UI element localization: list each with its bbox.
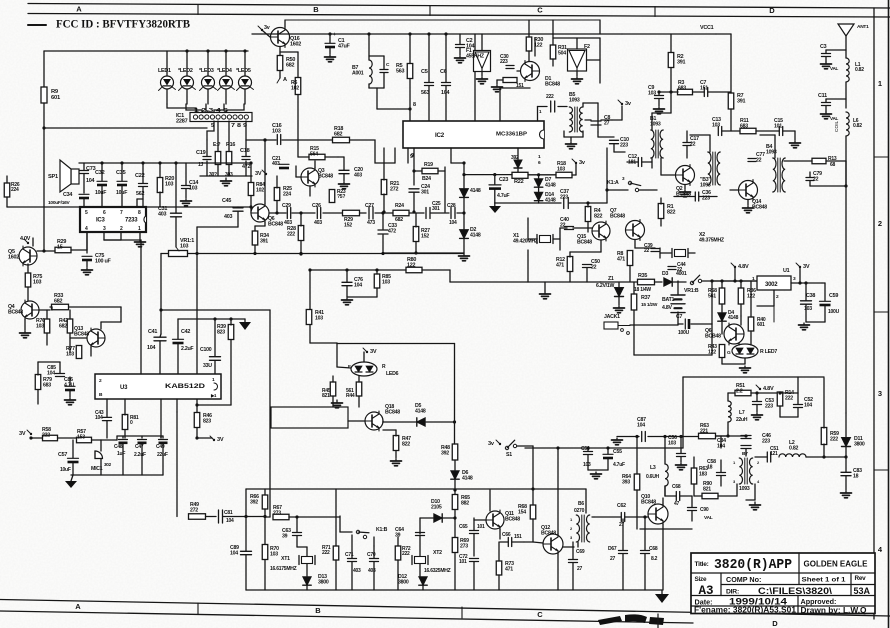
wire F2 right <box>599 38 601 83</box>
ground Q14 <box>747 200 749 205</box>
svg-text:151: 151 <box>700 85 708 91</box>
wire R43 gnd <box>721 358 723 364</box>
svg-text:103: 103 <box>557 166 565 172</box>
wire cap bottoms <box>122 444 124 475</box>
wire IC3 pin2-3 bottom <box>103 232 105 240</box>
svg-text:104: 104 <box>86 178 94 184</box>
svg-text:27: 27 <box>577 566 583 572</box>
wire LED1 to pin1 <box>167 104 196 113</box>
diode D10 <box>434 514 442 522</box>
svg-text:BC848: BC848 <box>641 499 656 505</box>
capacitor C22 <box>139 183 148 185</box>
wire LED3 anode <box>207 51 209 76</box>
wire C89 <box>245 517 247 552</box>
wire IC1 pin9 down <box>245 121 247 140</box>
svg-text:224: 224 <box>11 187 19 193</box>
capacitor C67 <box>619 550 628 552</box>
svg-text:F'ename: 3820(R)A53.S01: F'ename: 3820(R)A53.S01 <box>694 606 797 615</box>
wire LED4 anode <box>225 51 227 76</box>
svg-text:683: 683 <box>43 382 51 388</box>
resistor R71 <box>333 546 339 560</box>
wire C87 right <box>648 436 700 438</box>
svg-text:BC848: BC848 <box>8 309 23 315</box>
svg-text:C65: C65 <box>459 524 468 530</box>
svg-text:272: 272 <box>390 187 398 193</box>
svg-text:C69: C69 <box>576 549 585 555</box>
svg-text:G: G <box>727 350 731 356</box>
wire L2 right <box>806 456 846 458</box>
wire VCC top rail <box>252 33 622 35</box>
wire Q5 emitter <box>27 264 29 273</box>
svg-text:3800: 3800 <box>854 441 865 447</box>
svg-text:U1: U1 <box>783 268 790 274</box>
wire K1B <box>339 516 341 532</box>
resistor R18 <box>333 137 350 143</box>
wire Q11 base <box>474 519 486 521</box>
resistor R43 <box>719 345 725 358</box>
svg-text:BC848: BC848 <box>74 331 89 337</box>
bottom tick B/C <box>461 607 463 618</box>
capacitor C72 <box>470 558 479 560</box>
svg-text:563: 563 <box>396 69 404 75</box>
svg-text:B6: B6 <box>578 501 584 507</box>
resistor R70 <box>262 545 268 560</box>
svg-text:471: 471 <box>505 566 513 572</box>
diode D11 <box>842 438 851 447</box>
wire C31 to pot <box>175 217 177 247</box>
inductor L7 <box>728 401 731 422</box>
svg-text:A: A <box>76 5 82 14</box>
wire long mid rail <box>44 127 207 129</box>
wire C100 <box>214 319 216 356</box>
wire R5 <box>409 34 411 63</box>
resistor R34 <box>252 231 258 245</box>
wire R39 <box>230 319 232 325</box>
wire R80 left <box>310 269 406 271</box>
svg-text:C34: C34 <box>63 192 72 198</box>
diode D8 392 <box>514 160 522 168</box>
capacitor C70 <box>370 558 379 560</box>
resistor R14 <box>777 392 783 406</box>
resistor R5 <box>407 64 413 79</box>
3v tag B5 <box>621 103 623 105</box>
svg-text:*LED5: *LED5 <box>236 68 251 74</box>
wire LED2 to pin2 <box>186 104 202 113</box>
svg-text:18: 18 <box>707 464 713 470</box>
svg-text:222: 222 <box>287 231 295 237</box>
wire mod box shield <box>271 407 348 428</box>
wire Q13 base <box>70 337 87 339</box>
svg-text:39: 39 <box>282 533 288 539</box>
svg-text:4148: 4148 <box>470 188 481 194</box>
resistor R77 <box>76 346 82 359</box>
svg-text:22: 22 <box>644 248 650 254</box>
svg-text:D: D <box>769 6 775 15</box>
pot R22 <box>512 172 528 178</box>
wire IC2 pin9 stub <box>413 148 415 185</box>
svg-text:K1:A: K1:A <box>607 180 619 186</box>
node audio rail <box>100 161 103 164</box>
svg-text:LED1: LED1 <box>158 68 171 74</box>
svg-text:*LED4: *LED4 <box>217 68 232 74</box>
wire shield top <box>161 309 270 311</box>
capacitor C16 <box>276 135 278 145</box>
resistor R81 <box>122 415 128 430</box>
capacitor C52 <box>794 404 803 406</box>
capacitor C43 <box>103 416 112 418</box>
wire R36 <box>740 281 742 288</box>
svg-text:391: 391 <box>737 99 745 105</box>
wire 4.8 rail <box>712 280 786 282</box>
wire R47 <box>395 430 397 436</box>
wire R29 left <box>37 250 55 252</box>
wire D5 <box>383 421 416 423</box>
svg-text:R44: R44 <box>346 393 355 399</box>
resistor R9 <box>41 87 47 103</box>
wire C2 <box>459 34 461 44</box>
wire C53 <box>756 393 758 401</box>
svg-text:U3: U3 <box>120 385 128 391</box>
switch S1 <box>505 446 508 449</box>
capacitor C69 <box>569 559 578 561</box>
wire C34 down <box>83 199 85 207</box>
svg-text:COMP No:: COMP No: <box>726 575 761 584</box>
wire R49 feed <box>176 412 178 517</box>
capacitor C79 <box>806 177 814 179</box>
title block outer box <box>691 553 875 614</box>
svg-text:BC848: BC848 <box>545 81 560 87</box>
resistor R90 <box>702 493 718 499</box>
capacitor C222 <box>550 101 552 112</box>
capacitor C89 <box>241 550 252 552</box>
sheet frame right border outer <box>888 0 890 628</box>
transistor Q14 <box>739 180 758 201</box>
capacitor C68 <box>675 492 677 501</box>
wire C40 net <box>573 227 592 229</box>
wire R33 right <box>69 306 121 308</box>
resistor R26 <box>4 183 10 197</box>
wire C18 <box>245 140 247 156</box>
wire Q3 collector <box>314 161 316 168</box>
wire LED2 anode <box>186 51 188 76</box>
wire R67 right <box>289 516 340 518</box>
wire K1A right <box>639 189 657 191</box>
svg-text:C32: C32 <box>95 170 105 176</box>
wire C79 top <box>810 185 846 187</box>
electrolytic C42 <box>173 338 184 340</box>
svg-text:27: 27 <box>610 556 616 562</box>
wire audio net <box>38 361 60 363</box>
svg-text:1602: 1602 <box>290 42 301 48</box>
diode D6 <box>451 471 459 479</box>
wire q10 down <box>662 529 664 590</box>
svg-text:68: 68 <box>830 162 836 168</box>
LED LED1 <box>161 76 174 89</box>
wire D5 right <box>426 421 455 423</box>
svg-text:C3: C3 <box>820 44 827 50</box>
capacitor C37 <box>563 198 565 209</box>
transistor Q10 <box>648 503 668 525</box>
tank wires <box>368 34 370 60</box>
resistor R69 <box>452 538 458 553</box>
wire LED7 <box>738 343 740 345</box>
diode D13 <box>303 577 311 585</box>
wire R66 <box>264 489 266 495</box>
svg-text:3V: 3V <box>19 431 26 437</box>
diode D3 <box>664 278 672 286</box>
wire C67 <box>622 519 624 550</box>
capacitor C51 <box>766 452 768 462</box>
wire rail top q16 <box>285 19 600 21</box>
zener Z1 <box>615 288 624 297</box>
speaker SP1 <box>71 169 79 184</box>
dual LED7 <box>732 344 758 358</box>
jack JACK1 <box>604 322 618 329</box>
wire Q6b collector <box>740 316 742 325</box>
svg-text:IC3: IC3 <box>96 218 106 224</box>
wire C81 right <box>223 516 265 518</box>
capacitor C38 <box>801 300 812 302</box>
wire LED1 anode <box>166 51 168 76</box>
svg-text:103: 103 <box>668 440 676 446</box>
svg-text:403: 403 <box>272 161 280 167</box>
diode D5 <box>417 418 425 426</box>
wire B1 top <box>651 113 653 130</box>
svg-text:601: 601 <box>757 322 765 328</box>
wire R34 down <box>254 245 256 254</box>
wire Q16 collector top <box>284 20 286 27</box>
svg-text:273: 273 <box>273 510 281 516</box>
svg-text:C5: C5 <box>421 69 428 75</box>
svg-text:821: 821 <box>322 393 330 399</box>
wire demod row <box>269 212 286 214</box>
wire rail main <box>188 253 465 255</box>
wire Q10 emitter <box>662 524 664 529</box>
resistor R27 <box>413 227 419 242</box>
svg-text:47: 47 <box>674 501 680 507</box>
wire C9 <box>658 92 660 95</box>
transformer B6 <box>576 515 579 542</box>
svg-text:XT1: XT1 <box>281 556 290 562</box>
ground C20 <box>343 174 345 181</box>
capacitor C36 <box>694 192 696 201</box>
right tick 3/4 <box>874 469 889 471</box>
title block row divider 4 <box>691 605 875 607</box>
svg-text:223: 223 <box>765 403 773 409</box>
wire Q6 base <box>250 207 252 213</box>
svg-text:Title:: Title: <box>695 561 709 568</box>
crystal X2 <box>671 249 673 258</box>
svg-text:183: 183 <box>699 471 707 477</box>
wire mic rail <box>31 437 43 439</box>
diode D14 <box>534 192 542 200</box>
svg-text:104: 104 <box>449 220 457 226</box>
wire C17 net <box>686 131 688 142</box>
ground C56 <box>680 463 682 465</box>
tank capacitor <box>380 69 388 71</box>
wire R18 right <box>350 140 395 163</box>
svg-text:4148: 4148 <box>462 475 473 481</box>
wire Q7 emitter <box>634 240 636 248</box>
wire left col down <box>160 254 162 335</box>
capacitor C8 <box>591 120 601 122</box>
svg-text:4148: 4148 <box>470 232 481 238</box>
capacitor C13 <box>717 127 719 136</box>
resistor R42 <box>67 319 73 333</box>
wire C10 down <box>613 144 615 152</box>
svg-text:121: 121 <box>770 451 778 457</box>
wire R6 vertical <box>280 51 298 53</box>
svg-text:BC848: BC848 <box>318 173 333 179</box>
wire R58 <box>721 281 723 288</box>
wire R30 top <box>528 20 530 37</box>
svg-text:821: 821 <box>703 486 711 492</box>
transformer B3 <box>708 152 711 185</box>
wire C10 feed <box>597 132 599 137</box>
svg-text:822: 822 <box>667 210 675 216</box>
wire C33 <box>382 213 384 229</box>
wire C66 <box>500 541 508 543</box>
wire L7 <box>727 393 729 401</box>
wire C86 gnd <box>69 391 71 397</box>
svg-text:1093: 1093 <box>569 97 580 103</box>
wire R4 <box>587 203 589 207</box>
svg-text:18: 18 <box>853 473 859 479</box>
svg-text:1: 1 <box>878 79 882 88</box>
Q5 4.0V tag <box>27 242 29 244</box>
wire Q3 base <box>296 176 301 178</box>
resistor R73 <box>496 561 502 575</box>
svg-text:0.82: 0.82 <box>789 445 798 451</box>
wire R39 to R46 <box>196 399 198 412</box>
top tick A/B <box>197 5 199 15</box>
wire U1 gnd <box>773 306 775 322</box>
svg-text:C48: C48 <box>114 444 123 450</box>
wire R63 right <box>716 435 746 437</box>
svg-text:BC848: BC848 <box>268 221 283 227</box>
wire mic net <box>100 440 102 451</box>
dot row d1 <box>462 211 465 214</box>
svg-text:103: 103 <box>272 129 281 135</box>
svg-text:682: 682 <box>334 132 342 138</box>
wire R2 down <box>670 68 672 92</box>
svg-text:+: + <box>333 32 336 38</box>
wire R68 <box>532 519 534 542</box>
svg-text:563: 563 <box>421 90 429 96</box>
svg-text:Sheet 1 of 1: Sheet 1 of 1 <box>802 577 846 584</box>
electrolytic C7b <box>684 319 686 329</box>
svg-text:104: 104 <box>230 550 238 556</box>
svg-text:B: B <box>313 5 319 14</box>
node junction left bus <box>42 126 45 129</box>
transistor Q6b <box>724 323 744 345</box>
4.8V tag pa <box>759 388 761 390</box>
bottom tick A/B <box>197 603 199 614</box>
svg-text:Size: Size <box>695 576 707 583</box>
svg-text:B24: B24 <box>422 176 431 182</box>
svg-text:18 1/4W: 18 1/4W <box>634 287 651 293</box>
svg-text:D3: D3 <box>662 271 668 277</box>
crystal XT1 <box>298 556 300 565</box>
wire R20 <box>159 163 161 177</box>
wire R79 up <box>37 362 39 375</box>
svg-text:222: 222 <box>322 550 330 556</box>
svg-text:4001: 4001 <box>676 271 687 277</box>
svg-text:DIR:: DIR: <box>726 589 739 596</box>
wire R73 <box>498 542 500 561</box>
wire C73 <box>83 163 85 170</box>
svg-text:B7: B7 <box>742 451 748 457</box>
wire R25 <box>276 176 278 188</box>
svg-text:7 8 9: 7 8 9 <box>231 123 247 129</box>
pot wiper arrow <box>176 247 179 251</box>
wire caps top rail <box>117 435 163 437</box>
capacitor C31 <box>171 212 182 214</box>
resistor R39 <box>228 325 234 340</box>
wire B5 top right <box>582 103 584 107</box>
svg-text:BC848: BC848 <box>505 516 520 522</box>
ground Q2 emitter <box>684 185 686 189</box>
wire Q5 collector <box>32 238 34 246</box>
wire S1 right <box>517 445 533 447</box>
wire R45 R44 bottoms <box>332 396 334 407</box>
diode D7 <box>534 179 542 187</box>
wire rail left seg <box>161 253 169 255</box>
wire C75 down <box>86 261 88 267</box>
battery BAT1 <box>671 294 685 296</box>
resistor R63 <box>699 433 716 439</box>
wire tx bus to B6 <box>585 489 587 513</box>
svg-text:223: 223 <box>620 142 628 148</box>
capacitor C18 <box>242 156 250 158</box>
ground C15 <box>794 141 796 143</box>
ground C11 <box>825 112 827 114</box>
svg-text:504: 504 <box>558 50 566 56</box>
svg-text:403: 403 <box>314 220 322 226</box>
svg-text:3: 3 <box>878 389 882 398</box>
wire C83 <box>845 457 847 472</box>
svg-text:BAT1: BAT1 <box>662 297 675 303</box>
svg-text:152: 152 <box>344 222 352 228</box>
3v tag S1 <box>499 443 501 445</box>
wire C79 <box>809 172 811 177</box>
wire squelch row <box>464 174 512 176</box>
svg-text:2105: 2105 <box>431 504 442 510</box>
ground F2 <box>576 71 578 76</box>
capacitor C71 <box>348 558 357 560</box>
svg-text:7233: 7233 <box>125 218 138 224</box>
svg-text:151: 151 <box>514 534 522 540</box>
capacitor C63 <box>293 532 302 534</box>
wire bus left drop <box>245 489 247 517</box>
svg-text:823: 823 <box>217 329 225 335</box>
capacitor C20 <box>339 169 349 171</box>
transistor Q5 <box>19 246 37 266</box>
ground C2 <box>459 56 461 58</box>
microphone MIC1 <box>95 451 103 459</box>
wire C37 right <box>569 202 607 204</box>
capacitor C27 <box>368 207 370 219</box>
title block col divider rev <box>850 573 852 596</box>
svg-text:682: 682 <box>59 323 67 329</box>
capacitor C46 <box>741 435 751 437</box>
wire R11 right <box>756 130 779 132</box>
svg-text:3v: 3v <box>264 25 270 31</box>
diode D4 <box>718 313 726 321</box>
wire Q1 base <box>517 70 520 72</box>
capacitor C9 <box>655 95 664 97</box>
svg-text:4.7uF: 4.7uF <box>613 462 625 468</box>
